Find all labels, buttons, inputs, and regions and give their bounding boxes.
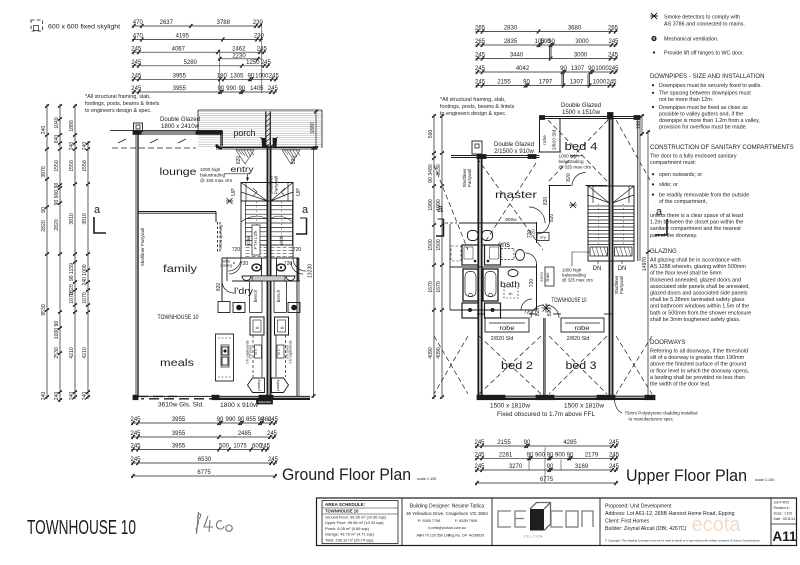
GF stair left rail: [240, 201, 242, 258]
UF bottom wall with windows: [477, 395, 655, 397]
svg-text:14970: 14970: [642, 257, 648, 271]
svg-text:245: 245: [606, 80, 617, 86]
svg-text:sill of a doorway is greater t: sill of a doorway is greater than 190mm: [650, 355, 745, 361]
UF top dim projection lines: [561, 74, 563, 86]
svg-text:the width of the door leaf.: the width of the door leaf.: [650, 382, 711, 388]
svg-text:Double Glazed: Double Glazed: [561, 102, 602, 109]
svg-text:to engineers design & spec.: to engineers design & spec.: [440, 111, 507, 117]
svg-text:possible to valley gutters and: possible to valley gutters and, if the: [659, 111, 743, 117]
svg-text:75mm Polystyrene cladding inst: 75mm Polystyrene cladding installed: [625, 411, 699, 416]
svg-text:245: 245: [608, 66, 619, 72]
svg-text:3955: 3955: [172, 417, 186, 423]
svg-text:245: 245: [260, 444, 271, 450]
svg-text:F'TH L'd'k: F'TH L'd'k: [253, 230, 258, 250]
smoke detector UF: [569, 202, 577, 208]
svg-text:unless there is a clear space: unless there is a clear space of at leas…: [650, 213, 744, 219]
baths (mirrored pair): [463, 269, 478, 301]
UF right small dim: [636, 114, 644, 136]
svg-text:4285: 4285: [563, 440, 577, 446]
svg-text:1550: 1550: [54, 160, 60, 171]
svg-text:associated side panels shall b: associated side panels shall be annealed…: [650, 284, 750, 290]
svg-text:265: 265: [608, 26, 619, 32]
svg-text:240: 240: [54, 392, 60, 401]
handwritten $4Co mark: [196, 512, 232, 534]
entry door triangles (hatched): [236, 150, 300, 164]
bath bottom wall: [450, 309, 537, 311]
svg-text:Building Designer: Nesime Tatl: Building Designer: Nesime Tatlica: [410, 504, 485, 510]
bench labels: [249, 281, 251, 313]
dashed diagonal bed3: [549, 336, 607, 394]
svg-text:3955: 3955: [173, 86, 187, 92]
svg-text:All glazing shall be in accord: All glazing shall be in accordance with: [650, 258, 741, 264]
robe left: [485, 318, 529, 332]
svg-text:4042: 4042: [516, 66, 530, 72]
svg-text:to c: to c: [277, 349, 281, 355]
smoke detector symbol GF: [226, 198, 234, 204]
m_y cupboard: [537, 233, 549, 241]
party wall through porch: [265, 112, 267, 148]
svg-text:3000: 3000: [574, 53, 588, 59]
GF bottom dim row 2: [130, 431, 277, 439]
svg-text:820: 820: [236, 156, 242, 165]
UF left dim chain 1: [428, 114, 436, 399]
GF hall wall: [222, 257, 268, 259]
hall door arcs: [526, 253, 537, 264]
svg-text:6530: 6530: [198, 457, 212, 463]
svg-text:245: 245: [609, 453, 620, 459]
svg-text:2179: 2179: [585, 453, 599, 459]
svg-text:245: 245: [475, 53, 486, 59]
svg-text:1500 x 1810w: 1500 x 1810w: [490, 404, 531, 410]
svg-text:3955: 3955: [173, 74, 187, 80]
celcon logo: [498, 503, 593, 531]
dashed diagonal bed4: [548, 120, 608, 182]
svg-text:245: 245: [130, 417, 141, 423]
dashed opening (900w opening): [217, 222, 219, 252]
svg-text:90: 90: [428, 177, 434, 183]
svg-text:720: 720: [232, 247, 241, 253]
svg-text:1000 90: 1000 90: [54, 321, 60, 340]
mech vent symbol: [651, 36, 656, 41]
svg-text:Upper Floor: 95.96 m² (10.33 s: Upper Floor: 95.96 m² (10.33 sqs): [325, 520, 384, 525]
ens shower dashed + basin: [501, 249, 514, 260]
svg-text:1797: 1797: [539, 80, 553, 86]
GF top wall with window (Double Glazed 1800 x 2410w): [133, 131, 222, 133]
svg-text:500: 500: [428, 130, 434, 139]
svg-text:4067: 4067: [172, 46, 186, 52]
GF top dim row 4: [131, 60, 271, 68]
svg-text:2637: 2637: [160, 20, 174, 26]
toilets: [252, 264, 261, 271]
svg-text:Smoke detectors to comply with: Smoke detectors to comply with: [664, 15, 740, 21]
svg-text:2/820 Sld: 2/820 Sld: [567, 336, 590, 342]
svg-text:part of the doorway.: part of the doorway.: [650, 233, 697, 239]
star symbol near townhouse10: [542, 304, 551, 313]
svg-text:Downpipes must be fixed as clo: Downpipes must be fixed as close as: [659, 105, 748, 111]
porch deck hatch: [198, 111, 322, 146]
svg-text:shall be 5.38mm laminated safe: shall be 5.38mm laminated safety glass: [650, 297, 745, 303]
svg-text:bath or 500mm from the shower: bath or 500mm from the shower enclosure: [650, 310, 751, 316]
svg-text:3955: 3955: [172, 431, 186, 437]
svg-text:245: 245: [130, 457, 141, 463]
wall lounge/family: [138, 211, 216, 213]
svg-text:Downpipes must be securely fix: Downpipes must be securely fixed to wall…: [659, 83, 762, 89]
title block frame: [317, 498, 797, 546]
svg-text:1307: 1307: [571, 66, 585, 72]
svg-text:245: 245: [474, 440, 485, 446]
stair direction arcs: [241, 216, 268, 222]
svg-text:provision for overflow must be: provision for overflow must be made.: [659, 125, 747, 131]
GF top dim row 5: [131, 74, 279, 82]
svg-text:820: 820: [291, 156, 297, 165]
svg-text:@ 325 max ctrs: @ 325 max ctrs: [562, 278, 594, 283]
svg-text:1500 x 1510w: 1500 x 1510w: [562, 109, 601, 116]
svg-text:245: 245: [130, 431, 141, 437]
svg-text:slide; or: slide; or: [659, 182, 678, 188]
svg-text:3810: 3810: [82, 213, 88, 224]
svg-text:230: 230: [254, 34, 265, 40]
svg-text:fr.: fr.: [280, 325, 285, 329]
svg-text:245: 245: [131, 46, 142, 52]
UF bottom dim projection lines: [544, 448, 546, 484]
svg-text:900w opening: 900w opening: [219, 225, 223, 249]
svg-text:4210: 4210: [82, 347, 88, 358]
neighbor dashed robe: [451, 246, 461, 261]
svg-text:1500 x 1810w: 1500 x 1810w: [564, 404, 605, 410]
svg-text:90: 90: [238, 417, 245, 423]
svg-text:245: 245: [608, 53, 619, 59]
svg-text:245: 245: [475, 66, 486, 72]
svg-text:*All structural framing, slab,: *All structural framing, slab,: [440, 97, 506, 103]
svg-text:2835: 2835: [504, 39, 518, 45]
svg-text:bed 4: bed 4: [565, 141, 598, 153]
svg-text:1250: 1250: [246, 60, 260, 66]
svg-text:90: 90: [247, 74, 254, 80]
svg-text:1670: 1670: [436, 281, 442, 292]
svg-text:P: 9305 7796: P: 9305 7796: [418, 519, 441, 523]
svg-text:bench: bench: [276, 289, 281, 302]
svg-text:Revision # :: Revision # :: [774, 506, 791, 510]
svg-text:The door to a fully enclosed s: The door to a fully enclosed sanitary: [650, 154, 737, 160]
svg-text:and bathroom windows within 1.: and bathroom windows within 1.5m of the: [650, 304, 749, 310]
svg-text:Proposed: Unit Development: Proposed: Unit Development: [605, 504, 672, 510]
svg-text:to c: to c: [254, 349, 258, 355]
svg-text:3610w Gls. Sld.: 3610w Gls. Sld.: [158, 403, 204, 409]
svg-text:90: 90: [217, 417, 224, 423]
svg-text:2/820 Sld: 2/820 Sld: [491, 336, 514, 342]
svg-text:1075: 1075: [233, 444, 247, 450]
svg-text:90: 90: [524, 440, 531, 446]
svg-text:3630: 3630: [436, 164, 442, 175]
svg-text:90: 90: [41, 207, 47, 213]
kitchen island: [216, 334, 234, 381]
GF stairs top landing: [241, 183, 293, 202]
svg-text:4090: 4090: [436, 347, 442, 358]
svg-text:footings, posts, beams & linte: footings, posts, beams & lintels: [440, 104, 515, 110]
dashed diagonal bed2: [479, 336, 541, 394]
post top-left: [134, 123, 143, 131]
svg-text:240: 240: [82, 392, 88, 401]
svg-text:1880: 1880: [69, 120, 75, 131]
svg-text:CONSTRUCTION OF SANITARY COMPA: CONSTRUCTION OF SANITARY COMPARTMENTS: [650, 144, 794, 151]
svg-text:820: 820: [549, 214, 555, 223]
svg-text:© Copyright: This drawing & de: © Copyright: This drawing & design must …: [605, 539, 760, 543]
area schedule box: [322, 501, 398, 544]
porch right edge: [321, 110, 323, 148]
GF left dim chain 3: [69, 104, 77, 400]
wc hinge bullet: [653, 51, 655, 53]
svg-text:Job # 4972: Job # 4972: [774, 501, 790, 505]
svg-text:pantry: pantry: [256, 379, 261, 390]
svg-text:13230: 13230: [308, 264, 314, 278]
svg-text:balustrading: balustrading: [200, 173, 225, 178]
GF bottom dim row 5: [131, 470, 277, 478]
svg-text:1800 x 2410w: 1800 x 2410w: [161, 123, 200, 130]
UF top dim row 2: [475, 39, 619, 47]
svg-text:robe: robe: [575, 325, 590, 332]
GF top eave line: [110, 130, 222, 132]
svg-text:s'h cupboards: s'h cupboards: [289, 340, 293, 364]
svg-text:1880: 1880: [310, 122, 316, 133]
svg-text:above the finished surface of: above the finished surface of the ground: [650, 362, 746, 368]
svg-text:2281: 2281: [499, 453, 513, 459]
svg-text:90: 90: [567, 453, 574, 459]
svg-text:The spacing between downpipes: The spacing between downpipes must: [659, 91, 751, 97]
svg-text:1500: 1500: [428, 239, 434, 250]
svg-text:a: a: [94, 204, 101, 216]
svg-text:AREA SCHEDULE:: AREA SCHEDULE:: [325, 502, 366, 507]
svg-text:5280: 5280: [184, 60, 198, 66]
robe walls (bed4/master): [539, 118, 541, 152]
svg-text:Partywall: Partywall: [619, 276, 624, 294]
svg-text:entry: entry: [231, 165, 254, 174]
stair center dot guides: [256, 202, 258, 244]
GF bottom wall with windows: [133, 395, 310, 397]
svg-text:2155: 2155: [497, 80, 511, 86]
linen: [545, 267, 554, 286]
svg-text:DOWNPIPES - SIZE AND INSTALLAT: DOWNPIPES - SIZE AND INSTALLATION: [650, 73, 765, 80]
GF left outer wall: [137, 131, 139, 397]
svg-text:855: 855: [246, 417, 257, 423]
dashed diagonal master: [477, 158, 543, 250]
svg-text:glazed doors and associated si: glazed doors and associated side panels: [650, 291, 748, 297]
svg-text:or floor level to which the do: or floor level to which the doorway open…: [650, 368, 750, 374]
svg-text:DOORWAYS: DOORWAYS: [650, 339, 685, 346]
GF porch south edge / entry wall: [216, 146, 318, 148]
svg-text:3000: 3000: [575, 39, 589, 45]
svg-text:1040: 1040: [54, 117, 60, 128]
svg-text:Double Glazed: Double Glazed: [494, 141, 535, 148]
svg-text:1.2m between the closet pan wi: 1.2m between the closet pan within the: [650, 220, 743, 226]
svg-text:1550: 1550: [82, 160, 88, 171]
svg-text:Provide lift off hinges to WC: Provide lift off hinges to WC door.: [664, 51, 744, 57]
polystyrene note: [614, 398, 622, 413]
svg-text:500: 500: [219, 444, 230, 450]
UF stair bottom landing hatch: [590, 247, 608, 256]
UF bottom dim row 4: [475, 477, 618, 485]
svg-text:downpipe is more than 1.2m fro: downpipe is more than 1.2m from a valley…: [659, 118, 760, 124]
GF top dim row 1: [132, 20, 264, 28]
svg-text:245: 245: [609, 440, 620, 446]
svg-text:m'y: m'y: [540, 235, 546, 240]
svg-text:720: 720: [531, 229, 536, 237]
porch left edge: [197, 110, 199, 131]
svg-text:4210: 4210: [69, 347, 75, 358]
svg-text:820: 820: [543, 197, 549, 206]
svg-text:990: 990: [225, 417, 236, 423]
svg-text:robe: robe: [500, 325, 515, 332]
svg-text:265: 265: [475, 26, 486, 32]
svg-text:90 1159: 90 1159: [69, 263, 75, 281]
svg-text:3810: 3810: [69, 213, 75, 224]
svg-text:820: 820: [566, 173, 572, 182]
svg-text:*All structural framing, slab,: *All structural framing, slab,: [85, 94, 151, 100]
svg-text:cl'&k: cl'&k: [246, 235, 251, 245]
svg-text:scale 1:100: scale 1:100: [755, 478, 774, 482]
svg-text:2230: 2230: [232, 53, 246, 59]
bath room fixtures: [508, 270, 518, 277]
svg-text:Garage: 43.76 m² (4.71 sqs): Garage: 43.76 m² (4.71 sqs): [325, 532, 375, 537]
GF stair flights treads: [246, 201, 293, 245]
svg-text:lounge: lounge: [160, 166, 197, 178]
GF right dim 1880: [310, 110, 318, 151]
GF left dim chain 2: [54, 104, 62, 402]
svg-text:Double Glazed: Double Glazed: [160, 116, 201, 123]
shelves black box: [257, 399, 273, 404]
svg-text:n.cells@protonl.com.au: n.cells@protonl.com.au: [428, 526, 466, 530]
svg-text:TOWNHOUSE 10: TOWNHOUSE 10: [158, 315, 200, 321]
UF top dim row 5: [475, 80, 617, 88]
svg-text:ecota: ecota: [692, 514, 742, 536]
svg-text:1305: 1305: [230, 74, 244, 80]
svg-text:3955: 3955: [172, 444, 186, 450]
GF top dim row 3: [131, 46, 267, 54]
UF top dim row 3: [475, 53, 619, 61]
svg-text:6775: 6775: [540, 477, 554, 483]
svg-text:SHELVES: SHELVES: [258, 400, 271, 404]
svg-text:3680: 3680: [568, 26, 582, 32]
svg-text:@ 325 max ctrs: @ 325 max ctrs: [559, 165, 592, 170]
svg-text:245: 245: [474, 453, 485, 459]
svg-text:not be more than 12m.: not be more than 12m.: [659, 97, 713, 103]
svg-text:balustrading: balustrading: [559, 159, 584, 164]
svg-text:2155: 2155: [497, 440, 511, 446]
svg-text:open outwards; or: open outwards; or: [659, 172, 702, 178]
svg-text:720: 720: [529, 279, 535, 288]
svg-text:a: a: [302, 204, 309, 216]
wall right of ens: [536, 222, 538, 243]
UF left dim chain 2: [436, 114, 444, 399]
laundry room: [232, 280, 262, 282]
svg-text:820: 820: [535, 308, 541, 317]
svg-text:240 1000: 240 1000: [82, 264, 88, 285]
UF top dim row 4: [475, 66, 619, 74]
svg-text:245: 245: [474, 464, 485, 470]
svg-text:DN: DN: [593, 266, 602, 272]
svg-text:90: 90: [217, 86, 224, 92]
svg-text:820: 820: [547, 308, 553, 317]
svg-text:of the floor level shall be 5m: of the floor level shall be 5mm: [650, 271, 722, 277]
UF right dim 14970: [642, 130, 650, 399]
UF bed4 top wall: [540, 116, 641, 118]
svg-text:F: 8339 7909: F: 8339 7909: [455, 519, 477, 523]
svg-text:36 Yellowbox Drive, Craigiebur: 36 Yellowbox Drive, Craigieburn VIC 3064: [406, 511, 488, 516]
svg-text:Porch: 6.05 m² (0.65 sqs): Porch: 6.05 m² (0.65 sqs): [325, 526, 370, 531]
UF right party wall: [609, 116, 611, 397]
UF master top wall: [451, 155, 540, 157]
svg-text:90: 90: [527, 453, 534, 459]
svg-text:245: 245: [475, 80, 486, 86]
duct shaft band: [252, 276, 285, 281]
svg-text:Date : 02/11/14: Date : 02/11/14: [774, 517, 796, 521]
GF left dim chain 1: [41, 104, 49, 400]
svg-text:3169: 3169: [575, 464, 589, 470]
bed2/bed3 divider wall: [544, 318, 546, 397]
svg-text:1670: 1670: [69, 292, 75, 303]
skylight legend symbol: [31, 20, 43, 31]
svg-text:Partywall: Partywall: [467, 169, 472, 187]
svg-text:245: 245: [261, 60, 272, 66]
svg-text:fr.: fr.: [255, 325, 260, 329]
svg-text:Referring to all doorways, if: Referring to all doorways, if the thresh…: [650, 349, 748, 355]
svg-text:2462: 2462: [232, 46, 246, 52]
svg-text:Ground Floor Plan: Ground Floor Plan: [282, 465, 411, 484]
svg-text:245: 245: [269, 74, 280, 80]
svg-text:@ 325 max ctrs: @ 325 max ctrs: [200, 178, 233, 183]
svg-text:180: 180: [217, 74, 228, 80]
svg-text:Address: Lot A61-12, 265B Harv: Address: Lot A61-12, 265B Harvest Home R…: [605, 511, 735, 517]
svg-text:720: 720: [293, 247, 302, 253]
svg-text:90: 90: [523, 80, 530, 86]
svg-text:245: 245: [257, 46, 268, 52]
svg-text:240: 240: [69, 142, 75, 151]
svg-text:90: 90: [547, 464, 554, 470]
smoke detector legend symbol: [650, 13, 658, 19]
svg-text:family: family: [163, 263, 198, 275]
svg-text:2530: 2530: [54, 347, 60, 358]
roof dashed line over lounge: [112, 147, 196, 149]
basins (half-round): [242, 276, 251, 281]
svg-text:900: 900: [535, 453, 546, 459]
UF bottom dim row 3: [474, 464, 619, 472]
svg-text:bench: bench: [253, 289, 258, 302]
GF shaftliner party wall: [267, 145, 269, 397]
svg-text:90: 90: [238, 86, 245, 92]
svg-text:240: 240: [41, 126, 47, 135]
svg-text:1800 x 910w: 1800 x 910w: [220, 403, 259, 409]
svg-text:sh.: sh.: [509, 292, 514, 296]
svg-text:4195: 4195: [176, 34, 190, 40]
svg-text:Scale : 1:100: Scale : 1:100: [774, 512, 793, 516]
door arcs below stairs: [228, 258, 241, 271]
svg-text:UP: UP: [296, 188, 302, 196]
svg-text:90 900 90: 90 900 90: [54, 183, 60, 206]
svg-text:master: master: [495, 189, 538, 201]
svg-text:1000: 1000: [593, 80, 607, 86]
svg-text:90: 90: [560, 66, 567, 72]
GF stair right rail: [292, 201, 294, 258]
svg-text:Builder: Zeynal Akcali (DBt. 4: Builder: Zeynal Akcali (DBt. 4267C): [605, 526, 687, 532]
svg-text:compartment must:: compartment must:: [650, 160, 696, 166]
svg-text:Reg No. DP- AO38029: Reg No. DP- AO38029: [448, 534, 484, 538]
WC cisterns (mirrored pair): [468, 231, 479, 241]
svg-text:2820: 2820: [54, 219, 60, 230]
svg-text:245: 245: [131, 86, 142, 92]
vanity boxes below baths: [462, 303, 478, 318]
svg-text:2485: 2485: [238, 431, 252, 437]
svg-text:GLAZING: GLAZING: [650, 248, 677, 255]
svg-text:245: 245: [268, 86, 279, 92]
